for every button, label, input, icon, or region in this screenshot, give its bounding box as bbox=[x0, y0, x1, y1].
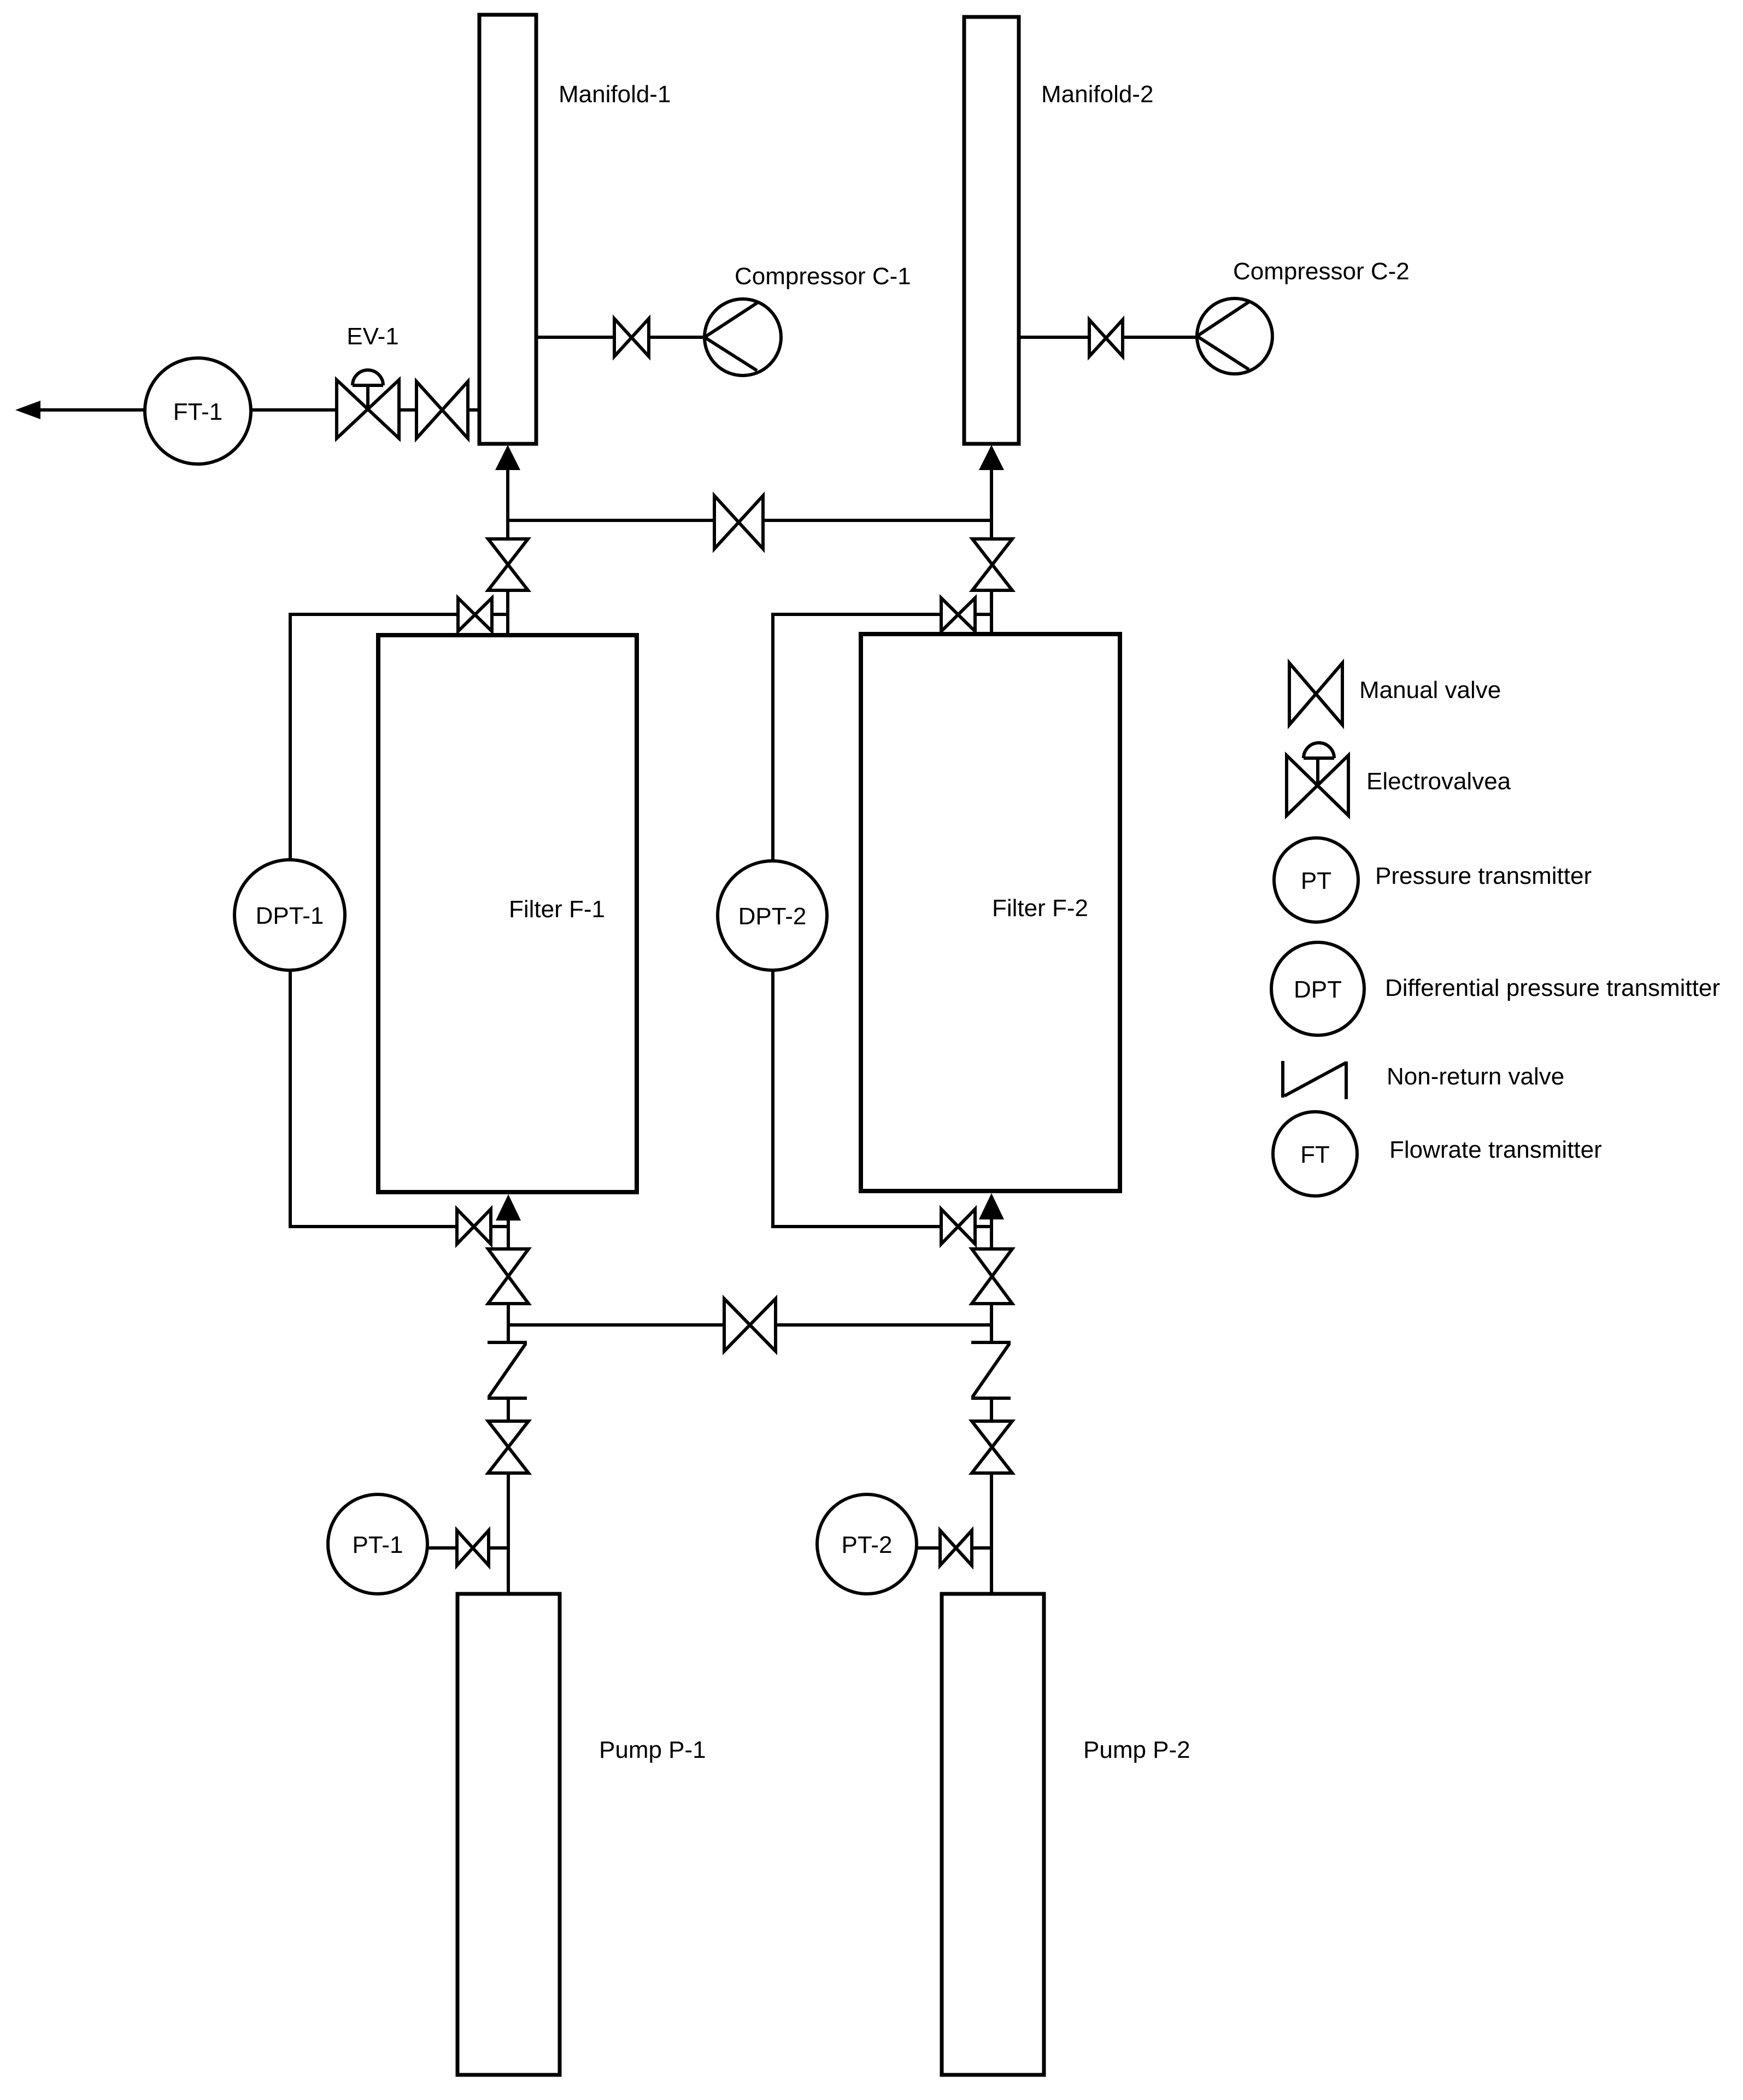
svg-text:PT-2: PT-2 bbox=[842, 1532, 893, 1558]
manual valve on upper crossover bbox=[714, 496, 763, 549]
pressure transmitter PT-1 bbox=[328, 1494, 427, 1594]
arrow into Filter F-1 bottom bbox=[496, 1194, 521, 1221]
svg-text:Manifold-2: Manifold-2 bbox=[1041, 81, 1153, 108]
wire valve to lower crossover junction F-2 side bbox=[990, 1304, 993, 1344]
arrow into Filter F-2 bottom bbox=[979, 1193, 1004, 1219]
pressure transmitter PT-2 bbox=[817, 1494, 917, 1594]
non-return valve on pump P-2 discharge bbox=[971, 1342, 1011, 1398]
wire riser under Manifold-1 bbox=[506, 469, 509, 541]
wire valve to compressor C-2 bbox=[1123, 336, 1198, 339]
wire valve to Manifold-1 bbox=[468, 408, 479, 412]
wire non-return valve to manual valve P-1 side bbox=[507, 1398, 510, 1423]
manual valve on F-1 lower bypass bbox=[457, 1209, 491, 1244]
svg-text:FT-1: FT-1 bbox=[173, 398, 222, 425]
wire F-1 upper bypass to DPT-1 bbox=[290, 614, 458, 862]
svg-text:Compressor C-2: Compressor C-2 bbox=[1233, 258, 1410, 285]
wire F-2 upper bypass valve to riser bbox=[975, 613, 991, 616]
wire non-return valve to manual valve P-2 side bbox=[990, 1398, 993, 1423]
wire DPT-1 to F-1 lower bypass bbox=[290, 970, 458, 1227]
legend non-return valve symbol bbox=[1283, 1061, 1346, 1099]
vessel Filter F-1 bbox=[378, 635, 637, 1192]
vessel Filter F-2 bbox=[861, 634, 1120, 1191]
wire lower crossover left segment bbox=[508, 1323, 726, 1327]
vessel Pump P-1 bbox=[457, 1594, 560, 2075]
wire Manifold-1 to compressor C-1 valve bbox=[536, 336, 615, 339]
manual valve on lower crossover bbox=[724, 1299, 776, 1351]
wire PT-1 valve to riser bbox=[489, 1546, 508, 1550]
legend pressure transmitter symbol PT bbox=[1274, 838, 1358, 922]
legend manual valve symbol bbox=[1289, 663, 1342, 725]
svg-text:Flowrate transmitter: Flowrate transmitter bbox=[1389, 1136, 1602, 1163]
wire EV-1 to manual valve bbox=[399, 408, 418, 412]
svg-text:DPT-1: DPT-1 bbox=[256, 902, 324, 929]
manual valve under Manifold-1 (vertical) bbox=[488, 539, 528, 590]
electrovalve EV-1 bbox=[337, 370, 399, 438]
wire PT-2 valve to riser bbox=[972, 1546, 991, 1550]
wire F-1 lower bypass valve to riser bbox=[491, 1225, 508, 1228]
svg-text:Manifold-1: Manifold-1 bbox=[559, 81, 671, 108]
flowrate transmitter FT-1 bbox=[145, 358, 251, 464]
arrow into Manifold-2 bottom bbox=[979, 445, 1004, 470]
wire lower crossover right segment bbox=[776, 1323, 991, 1327]
svg-text:Filter F-2: Filter F-2 bbox=[992, 895, 1088, 922]
wire outlet line from FT-1 to left edge bbox=[22, 408, 145, 412]
legend differential pressure transmitter symbol DPT bbox=[1271, 942, 1364, 1035]
svg-text:Filter F-1: Filter F-1 bbox=[509, 896, 605, 923]
legend flowrate transmitter symbol FT bbox=[1273, 1112, 1357, 1196]
wire riser under Manifold-2 bbox=[990, 469, 993, 541]
svg-text:DPT-2: DPT-2 bbox=[738, 903, 807, 930]
manual valve above PT-2 junction (vertical) bbox=[972, 1421, 1012, 1473]
manual valve on F-2 upper bypass bbox=[941, 598, 975, 631]
arrow into Manifold-1 bottom bbox=[495, 445, 520, 470]
wire FT-1 to EV-1 bbox=[251, 408, 338, 412]
compressor C-2 bbox=[1197, 298, 1272, 374]
svg-text:EV-1: EV-1 bbox=[347, 323, 398, 350]
wire F-1 upper bypass valve to riser bbox=[492, 613, 508, 616]
manual valve below Filter F-1 (vertical) bbox=[488, 1249, 529, 1304]
wire PT-1 to valve bbox=[427, 1546, 458, 1550]
wire valve to Filter F-1 top bbox=[506, 590, 509, 635]
manual valve on compressor C-1 line bbox=[614, 319, 649, 356]
svg-text:Compressor C-1: Compressor C-1 bbox=[735, 263, 911, 290]
svg-text:FT: FT bbox=[1300, 1141, 1330, 1168]
compressor C-1 bbox=[705, 299, 781, 376]
svg-text:Non-return valve: Non-return valve bbox=[1387, 1063, 1564, 1090]
wire riser below Filter F-2 bbox=[990, 1219, 993, 1251]
vessel Manifold-2 bbox=[964, 17, 1019, 444]
manual valve on F-1 upper bypass bbox=[458, 598, 492, 631]
manual valve under Manifold-2 (vertical) bbox=[972, 539, 1012, 590]
wire F-2 lower bypass valve to riser bbox=[975, 1225, 991, 1228]
manual valve on manifold-1 outlet bbox=[416, 382, 468, 438]
svg-text:DPT: DPT bbox=[1294, 976, 1342, 1003]
wire valve to compressor C-1 bbox=[649, 336, 705, 339]
svg-text:Manual valve: Manual valve bbox=[1359, 677, 1501, 703]
wire valve to lower crossover junction F-1 side bbox=[507, 1304, 510, 1344]
svg-text:Differential pressure transmit: Differential pressure transmitter bbox=[1385, 975, 1720, 1001]
svg-text:Electrovalvea: Electrovalvea bbox=[1366, 768, 1511, 795]
differential pressure transmitter DPT-1 bbox=[234, 860, 345, 970]
svg-text:Pressure transmitter: Pressure transmitter bbox=[1375, 863, 1592, 889]
arrow outlet flow (points left) bbox=[15, 401, 40, 419]
non-return valve on pump P-1 discharge bbox=[488, 1342, 527, 1398]
wire manual valve to pump P-2 bbox=[990, 1473, 993, 1594]
wire valve to Filter F-2 top bbox=[990, 590, 993, 634]
svg-text:Pump P-1: Pump P-1 bbox=[599, 1737, 706, 1763]
vessel Manifold-1 bbox=[479, 15, 536, 444]
svg-text:PT-1: PT-1 bbox=[353, 1532, 403, 1558]
manual valve at PT-2 bbox=[940, 1530, 972, 1565]
manual valve at PT-1 bbox=[457, 1530, 489, 1565]
wire riser below Filter F-1 bbox=[507, 1221, 510, 1251]
svg-text:Pump P-2: Pump P-2 bbox=[1083, 1737, 1190, 1763]
wire Manifold-2 to compressor C-2 valve bbox=[1019, 336, 1090, 339]
manual valve on F-2 lower bypass bbox=[941, 1209, 975, 1244]
manual valve on compressor C-2 line bbox=[1089, 320, 1123, 356]
svg-text:PT: PT bbox=[1301, 867, 1331, 894]
wire manual valve to pump P-1 bbox=[507, 1473, 510, 1594]
differential pressure transmitter DPT-2 bbox=[718, 861, 827, 970]
wire upper crossover left segment bbox=[508, 519, 716, 522]
manual valve above PT-1 junction (vertical) bbox=[488, 1421, 529, 1473]
wire F-2 upper bypass to DPT-2 bbox=[773, 614, 941, 862]
manual valve below Filter F-2 (vertical) bbox=[972, 1249, 1012, 1304]
legend electrovalve symbol bbox=[1287, 743, 1348, 816]
wire DPT-2 to F-2 lower bypass bbox=[773, 970, 941, 1227]
vessel Pump P-2 bbox=[942, 1594, 1044, 2075]
wire PT-2 to valve bbox=[917, 1546, 941, 1550]
wire upper crossover right segment bbox=[763, 519, 991, 522]
